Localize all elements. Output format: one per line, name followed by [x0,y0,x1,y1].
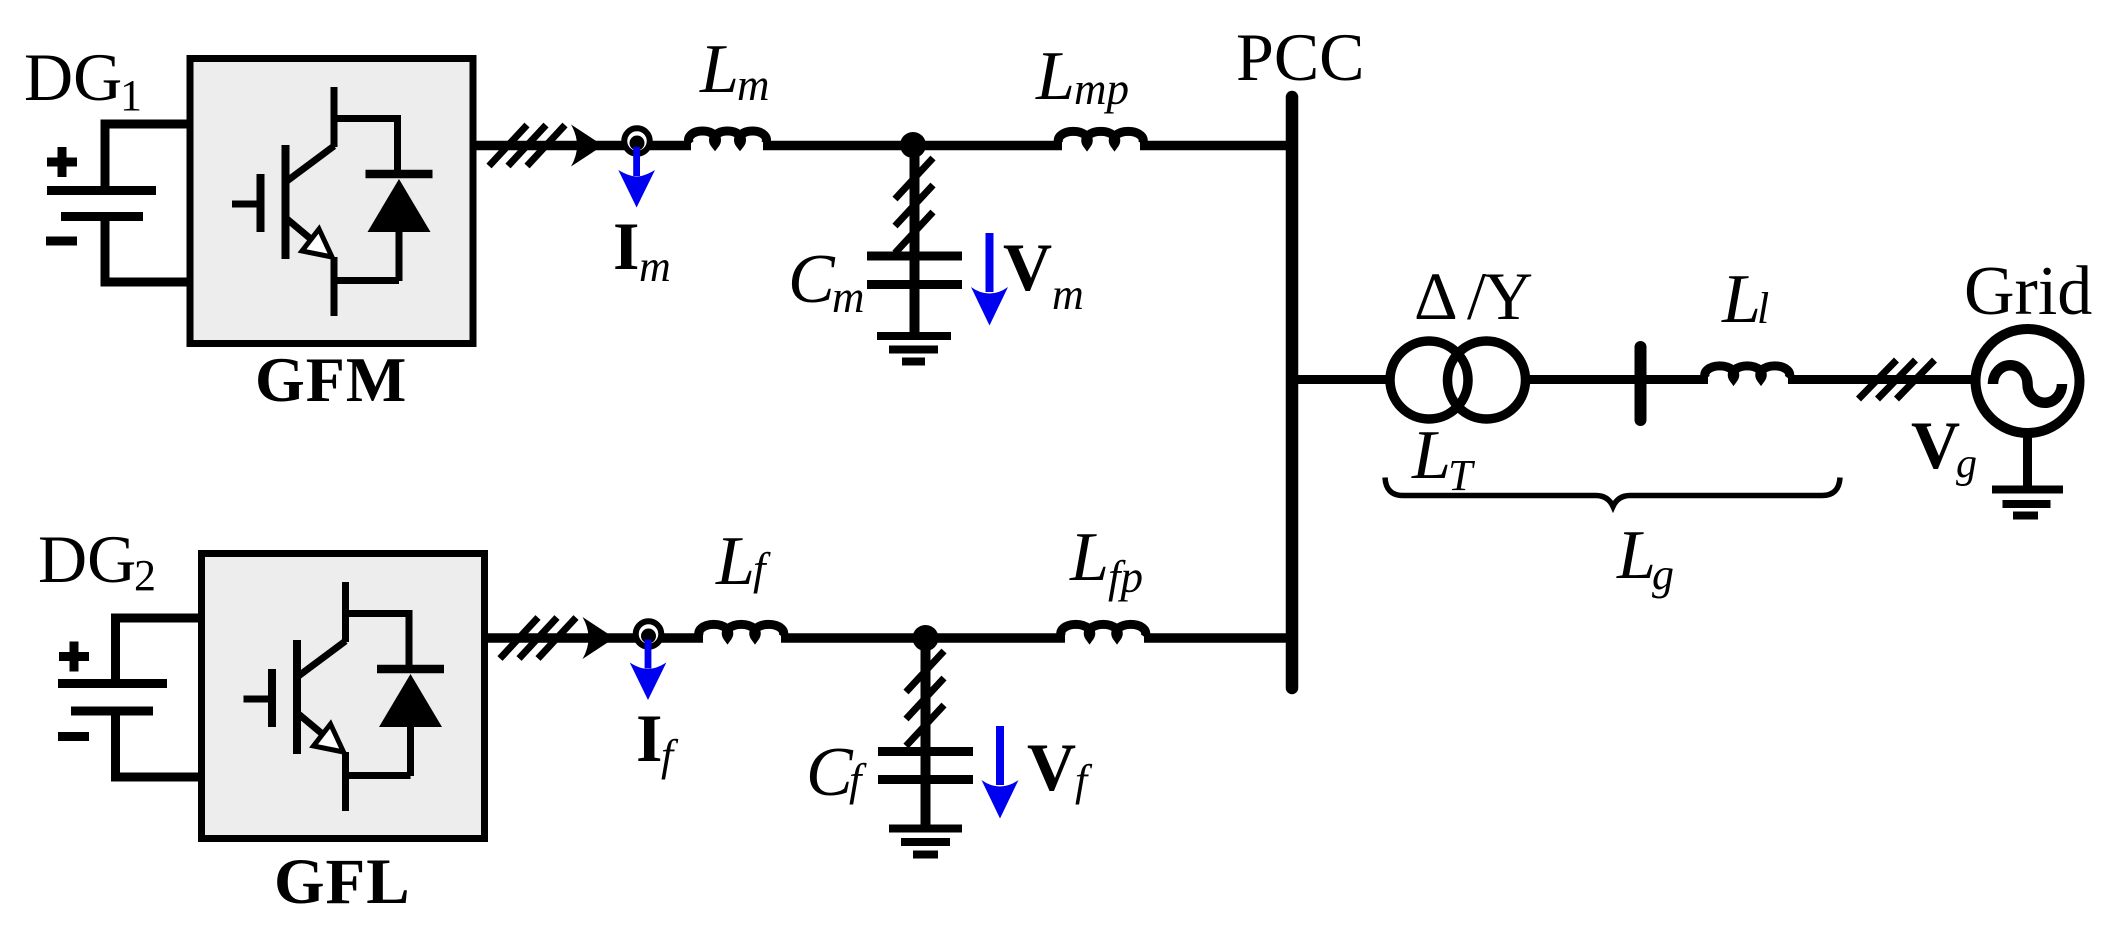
IGBT Q2 gate lead [244,696,272,703]
inductor Lf [699,624,784,637]
IGBT Q1 emitter arrowhead [302,229,332,257]
IGBT Q1 emitter diagonal [287,219,330,255]
svg-text:g: g [1652,550,1674,599]
wire collector to diode D2 [346,614,410,670]
wire battery1 top to box [105,124,193,190]
diode D2 triangle [379,674,442,727]
ground Gf [889,829,962,855]
IGBT Q1 gate lead [232,201,260,208]
wire Lmp to PCC bus [1140,141,1292,151]
measurement node ring If [636,621,662,647]
svg-text:L: L [1616,517,1656,594]
svg-text:V: V [1911,407,1960,483]
svg-text:Grid: Grid [1964,253,2092,330]
svg-text:V: V [1003,229,1052,305]
IGBT Q1 emitter lead [331,257,338,316]
plus sign B1 [47,147,77,177]
wire grid to ground [2023,432,2032,487]
svg-text:L: L [1411,417,1451,494]
brace Lg [1385,478,1840,507]
wire Cm plates and to ground [910,256,920,336]
IGBT Q1 gate bar [257,174,265,232]
three-phase slashes on wire 1 [489,125,565,166]
wire box1 to inductor Lm [473,141,691,151]
current direction arrowhead wire 1 [571,125,603,167]
svg-text:L: L [1721,261,1761,338]
grid source circle [1976,329,2080,433]
wire Lm to Lmp [763,141,1062,151]
wire collector to diode D1 [334,119,398,175]
svg-text:I: I [636,700,662,776]
wire transformer to tick [1529,375,1640,384]
measurement node dot If [641,629,656,644]
IGBT Q2 emitter lead [342,752,349,811]
minus sign B2 [58,732,89,741]
wire Ll to grid [1788,375,1975,384]
three-phase slashes near grid [1859,360,1935,399]
battery B2 plate short [71,707,153,716]
svg-text:m: m [1052,270,1084,319]
capacitor branch wire Cf [921,638,931,751]
IGBT Q2 collector lead [342,582,349,642]
diode D1 triangle [368,179,431,232]
transformer T1 secondary circle [1448,341,1526,419]
svg-text:L: L [715,523,755,600]
junction dot node m [900,132,926,158]
wire battery2 bottom to box [116,711,206,777]
wire Lf to Lfp [781,633,1065,643]
svg-text:DG: DG [24,39,122,115]
grid sine wave [1993,365,2062,403]
measurement node ring Im [624,128,650,154]
blue arrow Im [633,147,640,176]
svg-text:C: C [788,241,836,318]
plus sign B2 [59,642,89,672]
IGBT Q2 emitter diagonal [299,714,342,750]
inductor Lmp [1058,131,1143,144]
svg-text:L: L [699,31,739,108]
svg-text:T: T [1448,451,1476,500]
wire diode to emitter [334,277,399,284]
svg-text:m: m [639,242,671,291]
svg-text:L: L [1069,519,1109,596]
capacitor branch wire Cm [910,145,920,256]
IGBT Q2 body bar [293,640,301,754]
svg-text:fp: fp [1108,552,1143,602]
IGBT Q2 gate bar [268,669,276,727]
svg-text:GFM: GFM [255,344,407,415]
converter box U2 (GFL) [202,554,485,839]
capacitor Cf bottom plate [878,775,973,784]
inductor Lfp [1061,624,1146,637]
wire PCC to transformer [1292,375,1387,384]
wire diode2 to emitter [346,772,411,779]
svg-text:g: g [1956,441,1977,487]
blue arrow Vf [996,726,1004,785]
PCC bus [1286,97,1299,688]
wire tick to inductor Ll [1640,375,1708,384]
wire battery1 bottom to box [105,217,193,282]
svg-text:2: 2 [134,551,156,600]
blue arrow Vm [986,233,994,292]
three-phase slashes on wire 2 [500,618,576,659]
inductor Ll [1705,366,1790,379]
current direction arrowhead wire 2 [583,617,615,659]
ground Gm [877,336,951,362]
diode D1 anode lead [396,232,403,281]
wire Cf plates to ground [921,751,931,829]
capacitor Cf top plate [878,747,973,756]
diode D2 cathode bar [377,665,444,674]
svg-text:L: L [1035,38,1075,115]
blue arrow If [645,640,652,669]
diode D1 cathode bar [366,170,433,179]
measurement node dot Im [630,136,645,151]
minus sign B1 [46,237,77,246]
capacitor Cm top plate [867,252,962,261]
wire Lfp to PCC bus [1144,633,1292,643]
IGBT Q1 collector lead [331,87,338,147]
svg-text:1: 1 [120,71,142,120]
svg-text:I: I [613,208,639,284]
converter box U1 (GFM) [190,59,473,344]
three-phase slashes on Cm branch [895,158,933,253]
svg-text:m: m [737,60,770,110]
svg-text:DG: DG [38,521,136,597]
IGBT Q1 collector diagonal [287,146,334,181]
transformer T1 primary circle [1390,341,1468,419]
svg-text:l: l [1757,284,1769,333]
svg-text:Δ /Y: Δ /Y [1414,258,1532,334]
IGBT Q2 emitter arrowhead [314,724,344,752]
battery B1 plate short [61,212,143,221]
battery B2 plate long [58,679,167,688]
IGBT Q2 collector diagonal [299,641,346,676]
battery B1 plate long [47,186,156,195]
ground Gg [1992,490,2063,516]
svg-text:C: C [806,734,854,811]
svg-text:GFL: GFL [274,846,411,918]
diode D2 anode lead [407,727,414,776]
bus tick bar [1635,347,1647,420]
svg-text:PCC: PCC [1236,19,1365,95]
wire battery2 top to box [116,618,206,683]
junction dot node f [913,625,939,651]
wire box2 to inductor Lf [485,633,703,643]
svg-text:V: V [1027,729,1076,805]
svg-text:m: m [832,272,865,322]
svg-text:mp: mp [1074,64,1129,114]
IGBT Q1 body bar [282,145,290,259]
three-phase slashes on Cf branch [906,651,944,746]
inductor Lm [689,131,767,144]
capacitor Cm bottom plate [867,280,962,289]
